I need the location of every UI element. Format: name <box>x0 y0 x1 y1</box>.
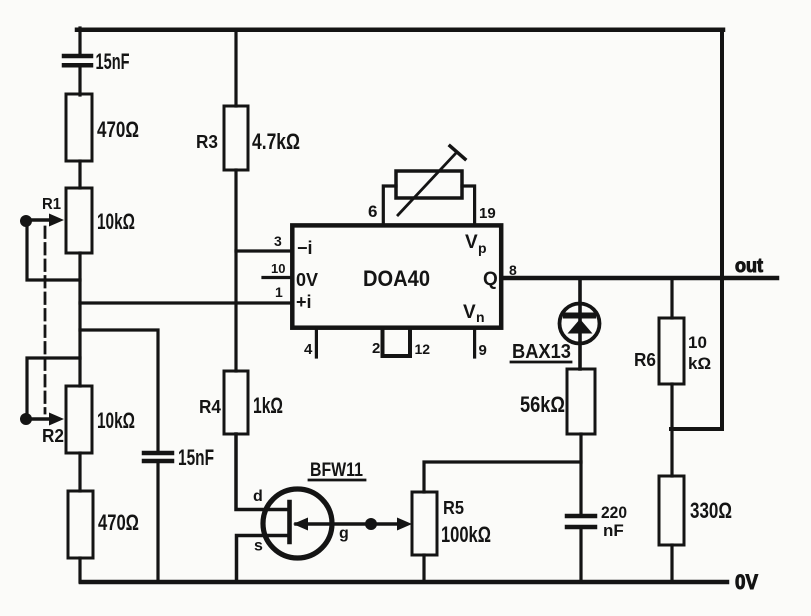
svg-text:R4: R4 <box>199 397 221 417</box>
svg-text:10: 10 <box>271 261 285 276</box>
svg-text:−i: −i <box>297 238 313 258</box>
svg-text:0V: 0V <box>296 270 318 290</box>
resistor R2 10k (potentiometer body) <box>66 386 92 453</box>
junction gate wiper dot <box>365 518 377 530</box>
svg-text:100kΩ: 100kΩ <box>441 522 491 547</box>
gate arrow into channel <box>293 518 308 531</box>
pin 10 stub <box>263 276 292 279</box>
op-amp U1 DOA40 body <box>292 225 501 327</box>
wire R2 wiper return <box>27 358 80 416</box>
R1 wiper arrow <box>27 214 64 227</box>
resistor R5 100k potentiometer body <box>412 492 437 555</box>
svg-text:out: out <box>735 256 764 277</box>
resistor R1 10k (potentiometer body) <box>66 188 92 253</box>
wire top rail (feedback node) <box>77 28 723 33</box>
svg-text:330Ω: 330Ω <box>690 498 732 523</box>
wire bottom 0V rail <box>81 580 727 585</box>
svg-text:15nF: 15nF <box>96 49 130 74</box>
wire right feedback vertical <box>720 30 724 429</box>
svg-text:kΩ: kΩ <box>688 354 711 373</box>
svg-text:470Ω: 470Ω <box>97 117 139 142</box>
wire 470 to R1 <box>78 161 81 188</box>
svg-text:470Ω: 470Ω <box>98 510 139 535</box>
svg-text:56kΩ: 56kΩ <box>520 392 565 417</box>
svg-text:nF: nF <box>603 521 624 540</box>
svg-text:+i: +i <box>296 292 312 312</box>
svg-text:19: 19 <box>479 205 496 222</box>
R2 wiper arrow <box>27 413 64 426</box>
R5 wiper arrow <box>397 518 412 531</box>
svg-text:g: g <box>339 525 349 542</box>
wire R3 top to rail <box>234 30 237 106</box>
svg-text:BAX13: BAX13 <box>512 341 571 363</box>
trimmer adjustment tick <box>450 146 465 159</box>
diode D1 BAX13 circle <box>560 304 600 344</box>
resistor 330ohm <box>659 476 684 545</box>
svg-text:DOA40: DOA40 <box>363 266 430 291</box>
resistor R4 1k <box>224 371 248 434</box>
svg-text:2: 2 <box>372 340 380 357</box>
svg-text:10kΩ: 10kΩ <box>97 209 135 234</box>
FET channel bar <box>287 502 292 542</box>
svg-text:15nF: 15nF <box>178 445 214 470</box>
svg-text:1kΩ: 1kΩ <box>253 393 283 418</box>
svg-text:8: 8 <box>509 262 517 278</box>
wire 470 bottom to 0V rail <box>78 558 81 582</box>
svg-text:R5: R5 <box>443 498 464 518</box>
wire R3 bottom to R4 top <box>234 170 237 371</box>
svg-text:p: p <box>478 240 487 256</box>
pin 4 stub <box>315 330 318 357</box>
wire left main branch top segment <box>78 28 81 54</box>
wire out through diode to 56k <box>578 278 582 369</box>
wire node A to +i (pin 1) <box>80 301 292 304</box>
svg-text:d: d <box>253 488 263 505</box>
wire R1 bottom to node A <box>78 253 81 386</box>
capacitor 15nF (top) <box>64 56 91 65</box>
junction R1 wiper dot <box>20 215 32 227</box>
svg-text:9: 9 <box>479 342 487 359</box>
pin 9 stub <box>473 330 476 357</box>
resistor R3 4.7k <box>224 106 248 170</box>
svg-text:V: V <box>463 302 476 323</box>
wire 330 to 0V rail <box>670 545 673 582</box>
wire cap to 470 top <box>78 67 81 95</box>
wire R1 wiper return <box>27 224 80 280</box>
svg-text:R1: R1 <box>42 196 61 213</box>
svg-text:n: n <box>476 309 485 325</box>
wire to -i (pin 3) <box>236 249 292 252</box>
trimmer adjustment diagonal <box>398 152 457 215</box>
capacitor 15nF (middle branch) <box>144 453 172 461</box>
wire 15nF branch to 0V rail <box>156 461 159 582</box>
junction R2 wiper dot <box>20 413 32 425</box>
wire pin 19 riser <box>462 186 475 224</box>
svg-text:V: V <box>465 232 478 253</box>
svg-text:0V: 0V <box>735 571 758 594</box>
FET gate wire <box>296 522 402 526</box>
svg-text:4.7kΩ: 4.7kΩ <box>252 129 300 154</box>
wire R5 bottom to 0V rail <box>422 555 425 582</box>
svg-text:10kΩ: 10kΩ <box>97 408 135 433</box>
svg-text:6: 6 <box>368 202 377 221</box>
diode anode triangle <box>568 319 593 334</box>
resistor R6 10k <box>659 318 684 384</box>
wire feedback to R6/330 junction <box>671 427 722 431</box>
wire R6 to 330 junction <box>670 384 673 476</box>
svg-text:1: 1 <box>275 284 283 300</box>
resistor 470ohm (top) <box>66 94 92 161</box>
wire pin 6 riser <box>383 186 396 224</box>
svg-text:3: 3 <box>274 233 282 249</box>
resistor 470ohm (bottom) <box>68 491 93 558</box>
svg-text:Q: Q <box>483 269 498 290</box>
wire node A to 15nF branch <box>80 330 158 453</box>
svg-text:R6: R6 <box>634 350 656 370</box>
svg-text:s: s <box>254 538 263 555</box>
wire out to R6 <box>670 278 673 318</box>
svg-text:4: 4 <box>304 341 313 358</box>
wire output line from pin 8 <box>503 276 777 281</box>
wire ganged dashed link R1-R2 <box>44 227 47 413</box>
transistor Q1 BFW11 circle <box>263 489 332 558</box>
svg-text:10: 10 <box>688 333 707 352</box>
pin 2-12 strap <box>383 330 411 356</box>
wire R5 top to 56k/220n node <box>424 462 581 492</box>
svg-text:12: 12 <box>415 341 431 357</box>
svg-text:R3: R3 <box>196 132 218 152</box>
capacitor 220nF <box>567 516 595 527</box>
wire 220nF to 0V rail <box>579 527 582 582</box>
svg-text:R2: R2 <box>42 426 64 446</box>
svg-text:BFW11: BFW11 <box>310 460 363 481</box>
svg-text:220: 220 <box>601 503 627 522</box>
wire R2 to 470 bottom <box>78 453 81 491</box>
trimmer resistor body (frequency adjust) <box>396 171 462 198</box>
wire 56k to 220nF node <box>579 434 582 516</box>
wire R4 to FET drain <box>236 434 289 510</box>
diode cathode bar <box>566 313 593 319</box>
resistor 56k <box>567 369 595 434</box>
wire FET source to 0V rail <box>237 536 290 583</box>
